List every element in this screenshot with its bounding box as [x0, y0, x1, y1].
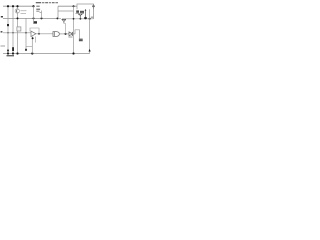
diode D2 blob: [89, 49, 91, 52]
node blob y18 x85.5: [84, 17, 87, 20]
label right small: [91, 17, 94, 18]
node dot A: [17, 17, 19, 19]
wire vertical x32.3: [31, 36, 33, 53]
capacitor C3 mark: [25, 49, 27, 51]
wire Q2 emitter down: [65, 23, 67, 34]
wire bottom ground rail: [3, 53, 90, 55]
wire feedback bus y18.4: [3, 17, 58, 19]
node dot gate output: [65, 33, 67, 35]
wire diode out loop: [72, 30, 79, 39]
wire riser x41.5: [40, 11, 42, 19]
label 3un under box: [76, 10, 84, 13]
wire op-amp input bus y32.8: [3, 32, 31, 34]
wire vertical branch x33.5: [33, 6, 35, 24]
op-amp U1: [31, 31, 36, 36]
node dot rail at box edge: [92, 5, 94, 7]
wire op-amp output: [36, 33, 53, 35]
wire vertical branch x18: [17, 6, 19, 53]
wire bridge under op-amp: [26, 46, 32, 48]
node junction dots on top rail: [7, 5, 9, 7]
label input tick left: [1, 45, 6, 47]
wire vertical branch x8: [7, 6, 9, 53]
label Rb left: [1, 16, 3, 18]
gate U2: [53, 32, 59, 37]
node dot rail bottom x73.5: [72, 52, 74, 54]
node dot input bus x26: [25, 32, 27, 34]
battery B1 plus mark: [7, 24, 9, 26]
node dot rail bottom x32: [31, 52, 33, 54]
label Vin left mid: [1, 31, 3, 33]
wire right edge x93.5: [93, 4, 95, 19]
arrow indicator up: [85, 9, 87, 18]
label R4 value: [36, 6, 40, 12]
node dot B: [33, 17, 35, 19]
label below ground rail: [7, 55, 15, 56]
wire feedback loop: [30, 28, 39, 34]
wire stub x35.5 below op-amp: [35, 37, 37, 43]
title text: [36, 2, 58, 3]
label below diode: [69, 36, 73, 37]
label C2 dark: [34, 21, 37, 23]
transistor Q2: [58, 18, 66, 23]
node dot D: [57, 17, 59, 19]
capacitor C4 plates: [79, 39, 83, 42]
wire y11 branch: [58, 10, 74, 12]
node dot y18.8 x80.4: [80, 18, 82, 20]
node dot C: [41, 17, 43, 19]
wire vertical branch x13: [12, 6, 14, 53]
label near Q1: [21, 10, 27, 14]
diode D1: [69, 32, 72, 36]
capacitor C1 body: [12, 47, 14, 51]
connector J1 box top right: [77, 4, 94, 9]
node dot x32.3 y38: [32, 37, 34, 39]
transistor Q3 down marks: [78, 14, 82, 19]
wire right vertical x89.6: [89, 9, 91, 53]
node dot y18.8 x89.6: [89, 18, 91, 20]
node dot feedback: [38, 33, 40, 35]
wire riser x58: [57, 6, 59, 18]
node dots rail bottom left: [7, 52, 9, 54]
background: [0, 0, 100, 60]
node dot input bus x8: [7, 32, 8, 33]
wire gate output: [60, 33, 70, 35]
wire VCC top rail left segment: [3, 5, 34, 7]
node dot y18.8 x73.5: [73, 18, 75, 20]
transistor Q1: [15, 9, 19, 13]
wire vertical below op-amp x26: [25, 18, 27, 49]
resistor R2 body: [17, 27, 21, 31]
node dot input bus x13: [12, 32, 13, 33]
battery B1 lower mark: [7, 50, 9, 52]
wire under label: [76, 13, 85, 15]
wire VCC top rail right segment: [58, 5, 94, 7]
wire output bus y18.8: [62, 18, 94, 20]
wire vertical branch x73.5: [73, 6, 75, 53]
